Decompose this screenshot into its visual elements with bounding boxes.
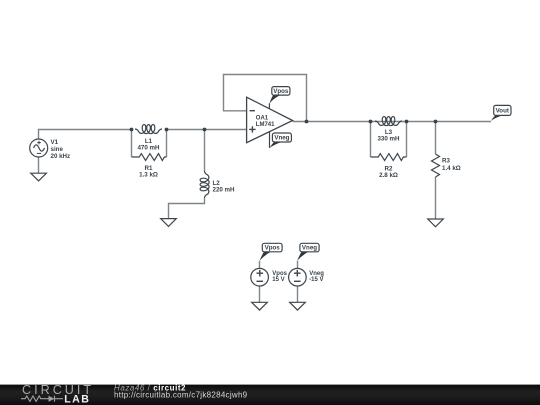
svg-text:Vout: Vout bbox=[496, 108, 509, 115]
svg-text:15 V: 15 V bbox=[272, 277, 284, 283]
svg-text:Vneg: Vneg bbox=[274, 135, 289, 142]
svg-text:http://circuitlab.com/c7jk8284: http://circuitlab.com/c7jk8284cjwh9 bbox=[114, 390, 248, 399]
svg-text:220 mH: 220 mH bbox=[213, 186, 236, 193]
svg-text:sine: sine bbox=[51, 146, 64, 153]
svg-text:1.3 kΩ: 1.3 kΩ bbox=[139, 171, 158, 178]
svg-text:LAB: LAB bbox=[64, 394, 90, 405]
svg-text:R3: R3 bbox=[442, 157, 450, 164]
svg-text:2.8 kΩ: 2.8 kΩ bbox=[379, 172, 398, 179]
svg-text:Vpos: Vpos bbox=[273, 88, 289, 95]
svg-text:470 mH: 470 mH bbox=[137, 144, 160, 151]
svg-text:LM741: LM741 bbox=[256, 122, 275, 128]
svg-text:1.4 kΩ: 1.4 kΩ bbox=[442, 165, 461, 172]
svg-text:OA1: OA1 bbox=[256, 115, 269, 121]
svg-text:V1: V1 bbox=[51, 139, 59, 146]
svg-text:20 kHz: 20 kHz bbox=[51, 153, 71, 160]
svg-text:Vneg: Vneg bbox=[302, 245, 317, 252]
svg-text:-15 V: -15 V bbox=[309, 277, 323, 283]
svg-text:330 mH: 330 mH bbox=[377, 135, 400, 142]
svg-text:Vpos: Vpos bbox=[265, 245, 281, 252]
